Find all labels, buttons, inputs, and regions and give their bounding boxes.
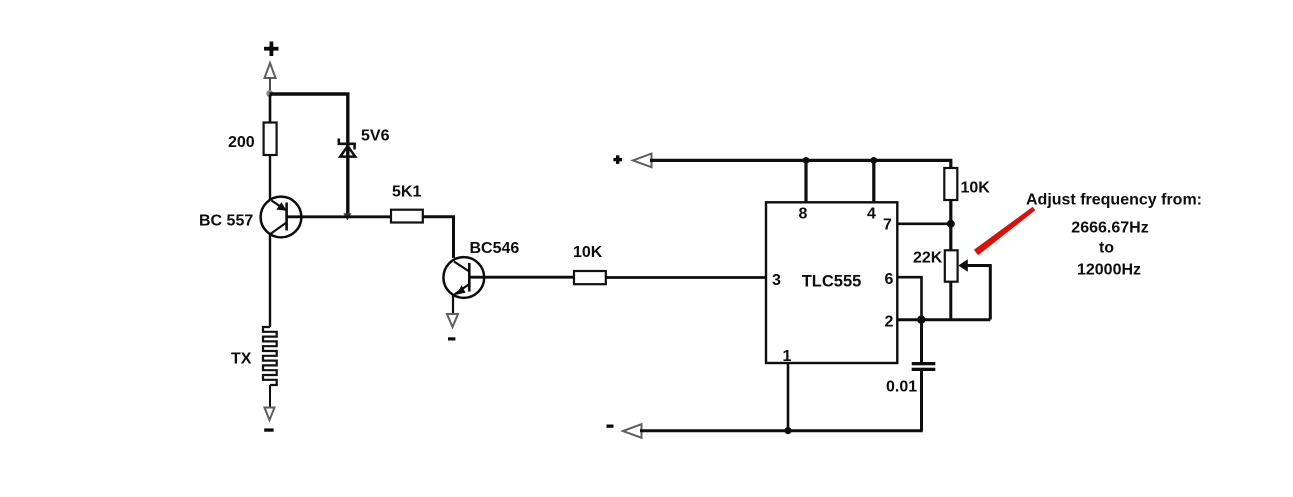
resistor 10K (base) — [574, 271, 606, 284]
svg-text:BC 557: BC 557 — [199, 213, 253, 230]
down arrow (BC546 emitter to -) — [447, 314, 458, 327]
wire: pin 8 to + rail — [804, 160, 807, 202]
wire: pin 2 net horizontal — [897, 318, 990, 321]
left arrow on - rail — [623, 424, 642, 438]
node dot at pin7 junction — [947, 220, 955, 228]
wire: 10K down to 22K — [949, 200, 952, 251]
svg-text:3: 3 — [772, 272, 781, 289]
wire: pin 1 down to - rail — [787, 363, 790, 431]
svg-text:to: to — [1099, 240, 1114, 257]
svg-text:7: 7 — [883, 217, 892, 234]
svg-text:4: 4 — [867, 206, 876, 223]
svg-text:8: 8 — [799, 206, 808, 223]
wire: 5K1 to BC546 collector — [423, 217, 454, 258]
small down arrowhead at base junction — [343, 213, 351, 220]
svg-text:10K: 10K — [961, 180, 991, 197]
wire: + node right and down through zener to base node — [270, 94, 348, 215]
node dot pin4/rail — [870, 157, 877, 164]
svg-text:TX: TX — [231, 351, 252, 368]
resistor 200 — [264, 123, 277, 156]
wire: BC546 emitter down — [452, 295, 454, 314]
IC U1 TLC555 — [766, 202, 897, 363]
wire: pin2 node down to capacitor — [920, 320, 923, 362]
top + rail wire — [650, 160, 951, 168]
svg-text:5V6: 5V6 — [361, 128, 390, 145]
wire: + node down to R 200 — [269, 95, 272, 123]
svg-text:2: 2 — [885, 314, 894, 331]
wire: BC557 base to 5K1 — [287, 215, 392, 218]
svg-text:1: 1 — [783, 348, 792, 365]
svg-text:10K: 10K — [573, 244, 603, 261]
wire: BC546 base to 10K — [471, 276, 575, 279]
node dot on pin2 net — [917, 316, 925, 324]
potentiometer wiper arrow — [958, 259, 968, 272]
node dot pin8/rail — [803, 157, 810, 164]
svg-text:0.01: 0.01 — [886, 379, 917, 396]
wire: wiper right and down to pin2 net — [967, 266, 990, 320]
power + symbol (top left) — [264, 42, 279, 57]
down arrow below TX to - — [265, 408, 275, 421]
wire: pin 4 to + rail — [872, 160, 875, 202]
red annotation arrow — [974, 207, 1035, 256]
transistor Q2 BC546 (NPN) — [443, 257, 484, 298]
svg-text:BC546: BC546 — [470, 240, 520, 257]
wire: 10K to pin 3 — [606, 276, 767, 279]
potentiometer 22K body — [945, 250, 958, 281]
wire: BC557 collector down to TX coil — [269, 235, 271, 327]
resistor 5K1 — [391, 210, 423, 223]
svg-text:TLC555: TLC555 — [802, 273, 862, 291]
plus label on top rail — [613, 155, 622, 164]
minus label on bottom rail — [607, 425, 614, 428]
svg-text:5K1: 5K1 — [392, 184, 421, 201]
svg-text:2666.67Hz: 2666.67Hz — [1071, 220, 1148, 237]
svg-text:22K: 22K — [913, 250, 943, 267]
minus label below BC546 emitter — [448, 337, 455, 340]
svg-text:12000Hz: 12000Hz — [1077, 262, 1141, 279]
wire: R200 to BC557 emitter — [269, 155, 271, 199]
wire: pot bottom to pin2 net — [949, 282, 952, 320]
wire: pin 7 to junction — [897, 223, 951, 226]
svg-text:200: 200 — [228, 134, 255, 151]
transistor Q1 BC 557 (PNP) — [261, 197, 302, 238]
svg-text:Adjust frequency from:: Adjust frequency from: — [1026, 192, 1202, 209]
bottom - rail wire — [640, 429, 923, 432]
wire: pin 6 right and down — [897, 277, 922, 319]
left arrow on + rail — [633, 154, 652, 168]
node dot pin1/- rail — [784, 427, 791, 434]
zener diode 5V6 — [339, 139, 355, 157]
wire: TX coil to down arrow — [269, 385, 271, 407]
minus label below TX — [264, 428, 273, 431]
inductor TX coil — [263, 327, 277, 385]
svg-text:6: 6 — [885, 271, 894, 288]
up arrow to + supply — [265, 63, 276, 91]
node: top junction dot — [266, 90, 273, 97]
resistor 10K (top right) — [944, 168, 957, 200]
wire: capacitor bottom down to - rail — [920, 371, 923, 431]
capacitor 0.01 — [912, 362, 936, 371]
